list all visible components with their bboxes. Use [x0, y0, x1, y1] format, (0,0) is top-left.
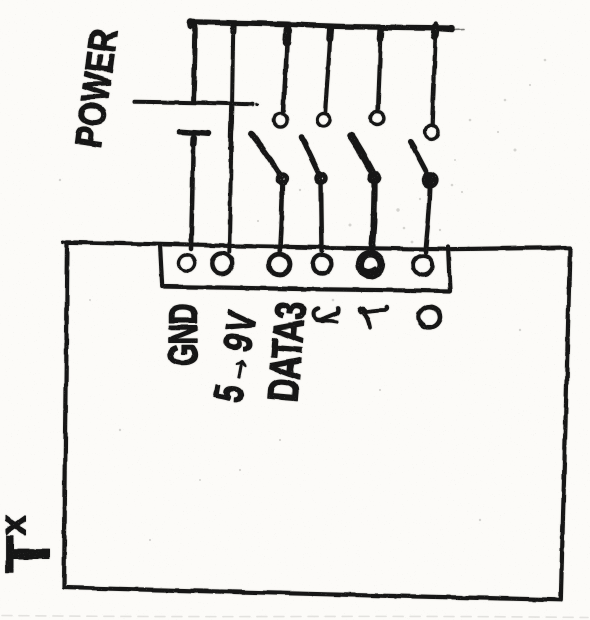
- battery B1 long plate (+): [134, 102, 253, 105]
- pin 2 5-9V circle: [212, 253, 232, 273]
- switch S2 lever: [302, 137, 321, 177]
- switch S1 pivot blob: [278, 174, 287, 183]
- wire: bus tail faint scratch: [452, 29, 464, 32]
- switch S2 fixed contact circle: [317, 113, 330, 126]
- svg-text:GND: GND: [161, 305, 206, 366]
- switch S3 upper wire (bus to contact): [378, 28, 381, 111]
- switch S1 upper wire (bus to contact): [284, 28, 288, 112]
- node: S3 bus junction blob: [377, 29, 385, 40]
- node: S2 bus junction blob: [326, 28, 334, 39]
- scan artifact: speckles: [59, 59, 547, 541]
- switch S4 lever tip thickening: [411, 142, 415, 148]
- wire: S1 pivot down to pin DATA3: [280, 181, 283, 251]
- node: speck right of long plate: [257, 103, 258, 106]
- svg-text:Tx: Tx: [0, 515, 63, 573]
- switch S1 lever tip thickening: [252, 134, 257, 140]
- pin 6 "0" circle: [413, 256, 432, 275]
- scan artifact: bottom smear: [2, 616, 588, 618]
- switch S4 upper wire (bus to contact): [432, 24, 436, 126]
- switch S1 fixed contact circle: [274, 114, 287, 127]
- pin 5 "1" circle (heavy): [360, 254, 382, 276]
- switch S4 fixed contact circle: [425, 126, 438, 139]
- wire: top supply bus: [191, 22, 453, 28]
- label 1 (handwritten, rotated): [362, 307, 387, 313]
- switch S4 lever: [411, 142, 429, 177]
- pin 1 GND circle: [179, 255, 195, 271]
- node: bus left end blob: [187, 22, 195, 26]
- label 2 (handwritten, rotated): [314, 309, 321, 320]
- pin 5 inner mark: [365, 268, 376, 270]
- wire: battery negative plate to pin GND: [191, 136, 193, 250]
- svg-text:5→9V: 5→9V: [205, 306, 266, 406]
- switch S2 lever tip thickening: [302, 138, 306, 145]
- wire: thickened stretch of 5-9V wire below plate crossing: [231, 104, 232, 148]
- switch S3 fixed contact circle: [371, 112, 384, 125]
- node: blob below battery short plate: [190, 138, 197, 144]
- node: S1 bus junction blob: [283, 29, 292, 43]
- switch S2 pivot blob: [317, 174, 326, 183]
- switch S2 upper wire (bus to contact): [325, 27, 330, 112]
- wire: bus to battery positive plate: [194, 24, 196, 101]
- node: S4 bus junction blob: [435, 27, 436, 36]
- switch S3 pivot bend: [370, 173, 379, 182]
- wire: bus right-end tail: [439, 29, 453, 30]
- switch S4 pivot blob (large): [424, 174, 437, 187]
- label 0 (handwritten, rotated): [417, 305, 443, 330]
- switch S3 lever tip: [351, 136, 355, 142]
- pin 3 DATA3 circle: [269, 254, 290, 275]
- wire: S4 pivot down to pin 0: [426, 184, 431, 253]
- pin 4 "2" circle: [313, 255, 332, 274]
- wire: S3 pivot down to pin 1 (scribbly thick): [372, 180, 375, 251]
- node: box top-left corner overshoot tick: [63, 241, 67, 245]
- transmitter Tx box outline: [64, 242, 570, 600]
- wire: S2 pivot down to pin 2: [321, 181, 322, 251]
- switch S3 lever (thick double-stroked): [351, 136, 374, 176]
- svg-text:DATA3: DATA3: [260, 300, 316, 404]
- svg-text:POWER: POWER: [67, 26, 126, 150]
- switch S1 lever: [251, 134, 282, 177]
- wire: bus to pin 5-9V: [229, 24, 233, 252]
- node: junction blob wire2/bus: [230, 26, 237, 32]
- battery B1 short plate (-): [180, 132, 210, 134]
- connector strip box: [160, 245, 450, 292]
